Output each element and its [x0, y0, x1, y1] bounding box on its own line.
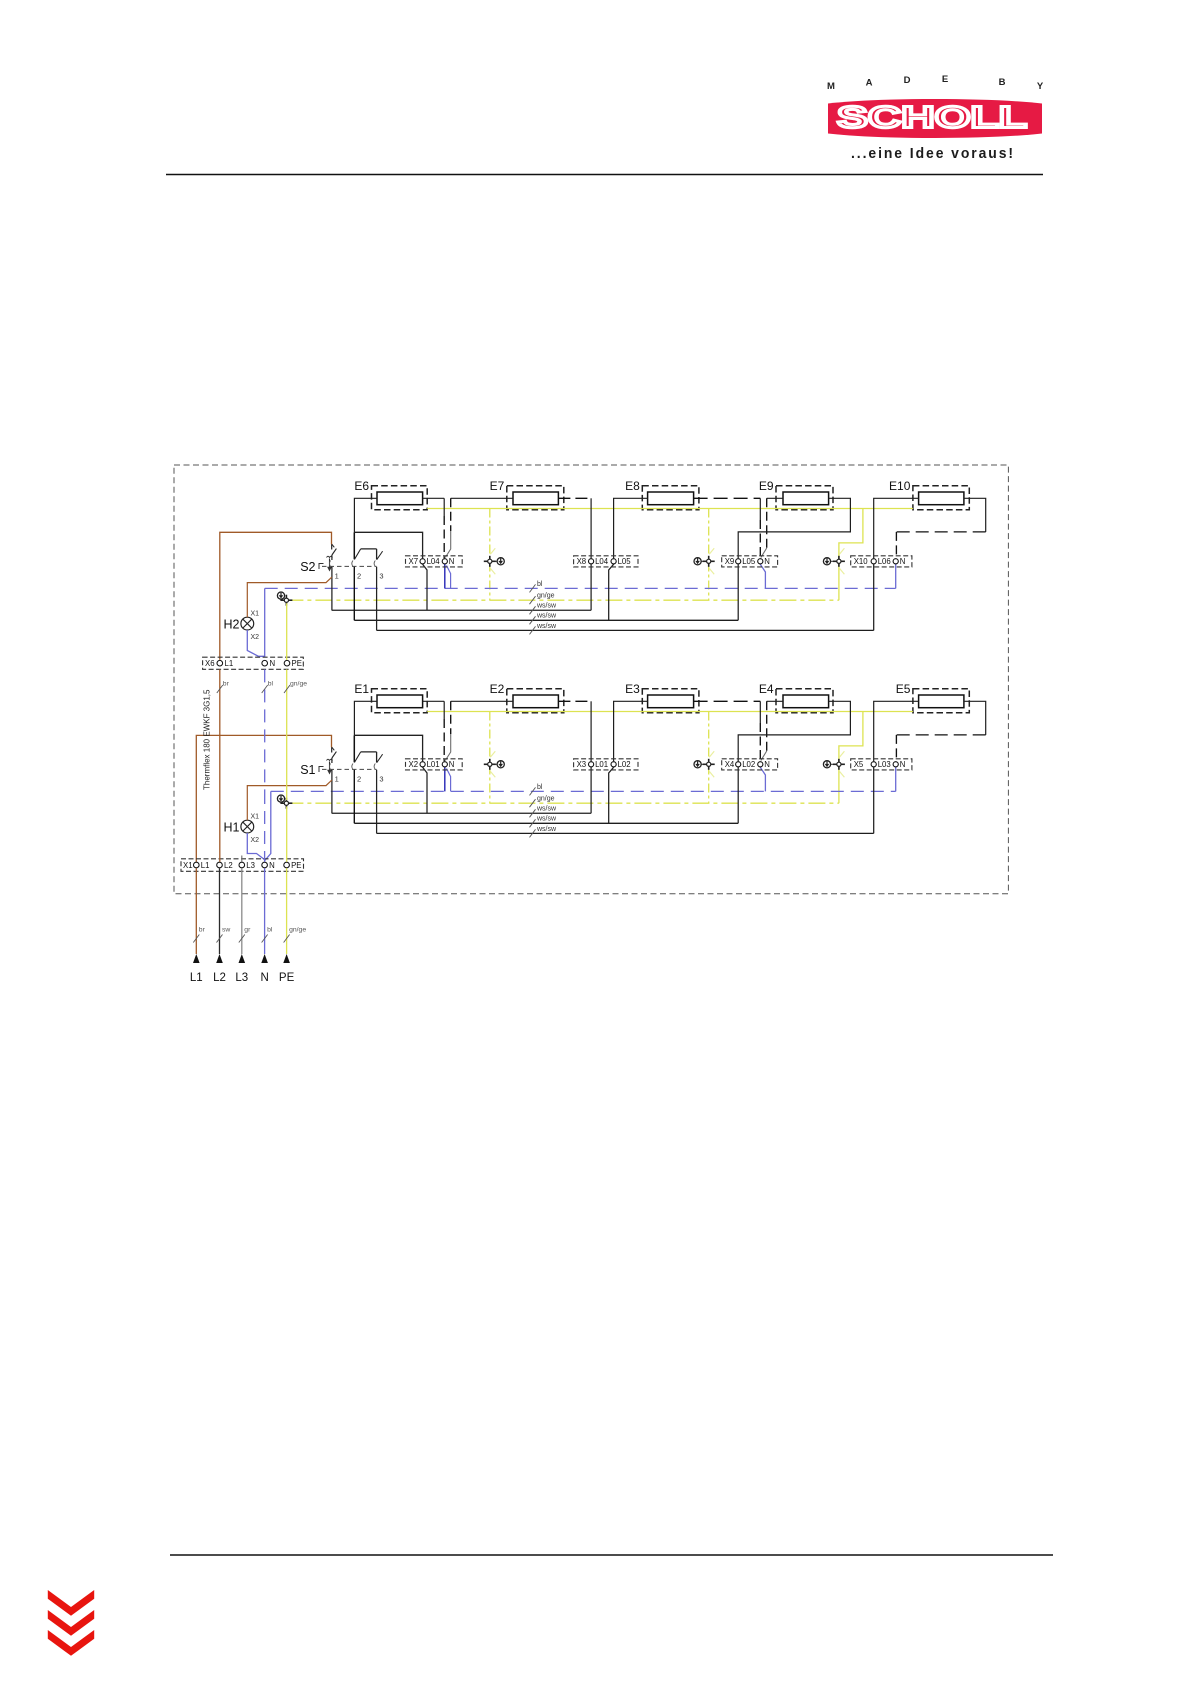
svg-text:ws/sw: ws/sw: [536, 806, 557, 813]
wire bl H2 X2 to X6 strip N: [247, 630, 264, 656]
wire brown S1 pole1 pivot to H1 X1: [247, 780, 332, 820]
terminal block X3 (L01,L02): [574, 759, 638, 770]
heating element E10 (resistor): [889, 479, 969, 510]
wire E-b right lead to L-terminal 2: [558, 497, 591, 499]
svg-text:E9: E9: [759, 479, 774, 493]
svg-text:SCHOLL: SCHOLL: [837, 101, 1027, 135]
svg-text:3: 3: [379, 572, 383, 581]
wire bl drop N-terminal 1: [444, 767, 446, 791]
wire gn/ge PE bus: [286, 802, 839, 804]
svg-text:X10: X10: [854, 557, 869, 566]
svg-text:N: N: [260, 972, 268, 984]
svg-text:N: N: [900, 760, 906, 769]
terminal block X9 (L05,N): [722, 556, 778, 567]
bus labels bl gn/ge ws/sw: [530, 581, 558, 635]
wire E-b right lead to L-terminal 2: [558, 700, 591, 702]
PE node 1 (earth symbol + crosshair): [484, 548, 505, 574]
wire E-d left lead (dashed) to N-terminal 3: [767, 497, 783, 499]
PE node 2 (earth symbol + crosshair): [694, 548, 715, 574]
svg-text:X2: X2: [251, 837, 260, 844]
wire L-terminal 2b drop to bus2: [609, 564, 614, 620]
svg-text:L1: L1: [201, 861, 210, 870]
svg-text:X3: X3: [577, 760, 587, 769]
svg-text:gr: gr: [244, 927, 251, 934]
svg-text:H1: H1: [224, 820, 240, 834]
svg-text:X1: X1: [251, 611, 260, 618]
wire bl X6-N to X1-N: [264, 669, 266, 791]
wire E-c right lead to N-terminal 3: [694, 700, 761, 702]
svg-text:gn/ge: gn/ge: [290, 681, 307, 688]
svg-text:N: N: [449, 760, 455, 769]
svg-text:D: D: [904, 75, 911, 86]
svg-text:B: B: [999, 77, 1006, 88]
svg-text:L01: L01: [427, 760, 440, 769]
PE node 3 (earth symbol + crosshair): [823, 751, 845, 777]
svg-text:L2: L2: [224, 861, 233, 870]
wire E-c right lead to N-terminal 3: [694, 497, 761, 499]
mains terminal L3 feed wire (gr): [235, 868, 251, 984]
svg-text:N: N: [270, 659, 276, 668]
enclosure dashed boundary: [174, 465, 1008, 894]
mains terminal N feed wire (bl): [260, 868, 272, 984]
svg-text:N: N: [764, 557, 770, 566]
svg-text:E3: E3: [625, 682, 640, 696]
wire bl drop N-terminal 1: [444, 564, 446, 588]
svg-text:S2: S2: [300, 560, 315, 574]
wire gn/ge X6-PE to X1-PE: [286, 669, 288, 800]
wire E-d left lead (dashed) to N-terminal 3: [767, 700, 783, 702]
wire bl bus riser to N-terminal 4: [895, 564, 897, 588]
svg-text:E10: E10: [889, 479, 911, 493]
svg-text:gn/ge: gn/ge: [289, 927, 306, 934]
wire E-c left lead to L-terminal 2b: [614, 701, 648, 761]
wire gn/ge PE drop 2: [708, 712, 710, 804]
heating element E1 (resistor): [354, 682, 427, 713]
wire brown X1-L1 riser and rail to S1 pole1: [196, 735, 331, 861]
heating element E3 (resistor): [625, 682, 699, 713]
svg-text:E4: E4: [759, 682, 774, 696]
svg-text:X6: X6: [205, 659, 215, 668]
wire gn/ge PE drop 3: [839, 509, 863, 601]
wire E-e right lead to N-terminal 4: [964, 701, 986, 735]
red chevron marks: [48, 1590, 94, 1656]
wire ws/sw bus 1 (L-rail pole1): [332, 812, 591, 814]
svg-text:L02: L02: [618, 760, 631, 769]
wire E-d right lead to L-terminal 3: [738, 498, 850, 558]
PE node left (earth symbol + crosshair): [277, 795, 284, 802]
svg-text:ws/sw: ws/sw: [536, 613, 557, 620]
svg-text:sw: sw: [222, 927, 230, 934]
svg-text:PE: PE: [279, 972, 295, 984]
wire ws/sw bus 3 (L-rail pole3): [377, 629, 874, 631]
indicator lamp H2: [224, 611, 260, 641]
svg-text:L04: L04: [595, 557, 609, 566]
svg-text:PE: PE: [291, 861, 301, 870]
svg-text:L3: L3: [246, 861, 255, 870]
wire E-e left lead to L-terminal 4: [874, 498, 919, 558]
svg-text:E1: E1: [354, 682, 369, 696]
terminal block X2 (L01,N): [406, 759, 463, 770]
wire gn/ge PE bus: [286, 599, 839, 601]
svg-text:X2: X2: [409, 760, 419, 769]
svg-text:Thermflex 180 EWKF 3G1,5: Thermflex 180 EWKF 3G1,5: [203, 689, 212, 790]
wire E-a left lead to rail: [354, 701, 377, 735]
wire E-a right lead to N-terminal 1: [423, 497, 445, 499]
svg-text:bl: bl: [267, 927, 273, 934]
svg-text:L2: L2: [213, 972, 226, 984]
heating element E8 (resistor): [625, 479, 699, 510]
wire E-b left lead (dashed) to N-terminal 1: [451, 700, 513, 702]
svg-text:2: 2: [357, 572, 361, 581]
wire bus3 riser to L-terminal 4: [873, 564, 875, 630]
svg-text:L03: L03: [878, 760, 891, 769]
wire bus2 riser to L-terminal 3: [737, 564, 739, 620]
wire L-terminal 1 drop to bus1: [423, 767, 427, 813]
svg-text:L1: L1: [190, 972, 203, 984]
wire core labels br bl gn/ge below X6: [217, 681, 307, 694]
svg-text:Y: Y: [1037, 81, 1044, 92]
mains terminal L1 feed wire (br): [190, 868, 206, 984]
heating element E9 (resistor): [759, 479, 833, 510]
header rule: [166, 174, 1043, 176]
wire E-a left lead to rail: [354, 498, 377, 532]
wire rail to L-terminal 1: [354, 532, 422, 558]
svg-text:ws/sw: ws/sw: [536, 816, 557, 823]
svg-text:X5: X5: [854, 760, 864, 769]
terminal strip X1 (L1 L2 L3 N PE): [181, 859, 304, 872]
wire ws/sw bus 1 (L-rail pole1): [332, 609, 591, 611]
svg-text:E2: E2: [490, 682, 505, 696]
svg-text:L05: L05: [618, 557, 632, 566]
svg-text:E8: E8: [625, 479, 640, 493]
wire bl bus riser to N-terminal 4: [895, 767, 897, 791]
footer rule: [170, 1554, 1053, 1556]
wire bl bus end down to X6 strip N: [264, 588, 266, 657]
terminal block X4 (L02,N): [722, 759, 778, 770]
terminal block X7 (L04,N): [406, 556, 463, 567]
svg-text:L3: L3: [235, 972, 248, 984]
switch S2 (3-pole): [300, 532, 383, 630]
mains terminal PE feed wire (gn/ge): [279, 868, 306, 984]
svg-text:X7: X7: [409, 557, 419, 566]
svg-text:PE: PE: [292, 659, 302, 668]
wire ws/sw bus 2 (L-rail pole2): [354, 822, 738, 824]
svg-text:br: br: [223, 681, 230, 688]
terminal block X10 (L06,N): [851, 556, 912, 567]
svg-text:E6: E6: [354, 479, 369, 493]
wire L-terminal 2b drop to bus2: [609, 767, 614, 823]
heating element E6 (resistor): [354, 479, 427, 510]
svg-text:N: N: [764, 760, 770, 769]
heating element E2 (resistor): [490, 682, 564, 713]
wire gn/ge X6-PE riser from PE bus: [286, 603, 288, 660]
svg-text:N: N: [900, 557, 906, 566]
wire E-b left lead (dashed) to N-terminal 1: [451, 497, 513, 499]
svg-text:bl: bl: [537, 581, 543, 588]
mains terminal L2 feed wire (sw): [213, 868, 230, 984]
wire bl H1 X2 to X1 strip N: [247, 833, 264, 860]
svg-text:ws/sw: ws/sw: [536, 826, 557, 833]
svg-text:X1: X1: [251, 814, 260, 821]
svg-text:X1: X1: [183, 861, 193, 870]
wire L-terminal 1 drop to bus1: [423, 564, 427, 610]
wire brown X6-L1 riser and rail to S2 pole1: [220, 532, 332, 660]
svg-text:gn/ge: gn/ge: [537, 796, 555, 803]
wire bl drop N-terminal 3: [760, 564, 765, 588]
svg-text:X8: X8: [577, 557, 587, 566]
wire gn/ge PE bonding rail along elements: [427, 711, 913, 713]
wire bus3 riser to L-terminal 4: [873, 767, 875, 833]
heating element E5 (resistor): [896, 682, 970, 713]
svg-text:X4: X4: [725, 760, 735, 769]
svg-text:N: N: [449, 557, 455, 566]
svg-text:L05: L05: [742, 557, 756, 566]
wire gn/ge PE bonding rail along elements: [427, 508, 913, 510]
terminal block X8 (L04,L05): [574, 556, 638, 567]
wire ws/sw bus 2 (L-rail pole2): [354, 619, 738, 621]
svg-text:L04: L04: [427, 557, 441, 566]
svg-text:bl: bl: [537, 784, 543, 791]
wire rail to L-terminal 1: [354, 735, 422, 761]
wire E-d right lead to L-terminal 3: [738, 701, 850, 761]
svg-text:L06: L06: [878, 557, 891, 566]
heating element E4 (resistor): [759, 682, 833, 713]
wire bl neutral bus: [265, 587, 896, 589]
svg-text:E5: E5: [896, 682, 911, 696]
svg-text:S1: S1: [300, 763, 315, 777]
wire gn/ge PE drop 1: [489, 509, 491, 601]
wire E-e left lead to L-terminal 4: [874, 701, 919, 761]
switch S1 (3-pole): [300, 735, 383, 833]
svg-text:M: M: [827, 81, 835, 92]
svg-text:1: 1: [335, 572, 339, 581]
svg-text:3: 3: [379, 775, 383, 784]
PE node 2 (earth symbol + crosshair): [694, 751, 715, 777]
wire brown S2 pole1 pivot to H2 X1: [247, 577, 332, 617]
svg-text:L02: L02: [742, 760, 755, 769]
svg-text:X9: X9: [725, 557, 735, 566]
terminal block X5 (L03,N): [851, 759, 912, 770]
indicator lamp H1: [224, 814, 260, 844]
svg-text:E7: E7: [490, 479, 505, 493]
stub above X1-L3: [241, 856, 243, 862]
wire E-c left lead to L-terminal 2b: [614, 498, 648, 558]
heating element E7 (resistor): [490, 479, 564, 510]
svg-text:ws/sw: ws/sw: [536, 623, 557, 630]
svg-text:E: E: [942, 74, 948, 85]
svg-text:L1: L1: [225, 659, 234, 668]
svg-text:L01: L01: [595, 760, 608, 769]
svg-text:br: br: [199, 927, 206, 934]
wire E-a right lead to N-terminal 1: [423, 700, 445, 702]
wire bus1 riser to L-terminal 2: [590, 564, 592, 610]
svg-text:2: 2: [357, 775, 361, 784]
wire E-e right lead to N-terminal 4: [964, 498, 986, 532]
PE node left (earth symbol + crosshair): [277, 592, 284, 599]
terminal strip X6 (L1 N PE): [203, 657, 304, 669]
wire bus2 riser to L-terminal 3: [737, 767, 739, 823]
svg-text:H2: H2: [224, 617, 240, 631]
svg-text:X2: X2: [251, 634, 260, 641]
logo MADE BY SCHOLL: [827, 74, 1044, 162]
wire gn/ge PE drop 1: [489, 712, 491, 804]
wire bl neutral bus: [271, 790, 896, 792]
wire gn/ge PE drop 3: [839, 712, 863, 804]
wire gn/ge PE drop 2: [708, 509, 710, 601]
svg-text:A: A: [866, 78, 873, 89]
svg-text:bl: bl: [268, 681, 274, 688]
svg-text:ws/sw: ws/sw: [536, 603, 557, 610]
bus labels bl gn/ge ws/sw: [530, 784, 558, 838]
wire bus1 riser to L-terminal 2: [590, 767, 592, 813]
svg-text:gn/ge: gn/ge: [537, 593, 555, 600]
svg-text:N: N: [269, 861, 275, 870]
svg-text:...eine Idee voraus!: ...eine Idee voraus!: [851, 146, 1015, 162]
wire brown X6-L1 to X1-L2: [219, 669, 221, 861]
PE node 1 (earth symbol + crosshair): [484, 751, 505, 777]
wire bl drop N-terminal 3: [760, 767, 765, 791]
wire ws/sw bus 3 (L-rail pole3): [377, 832, 874, 834]
PE node 3 (earth symbol + crosshair): [823, 548, 845, 574]
svg-text:1: 1: [335, 775, 339, 784]
wire bl bus end to X1 strip N: [265, 791, 271, 860]
